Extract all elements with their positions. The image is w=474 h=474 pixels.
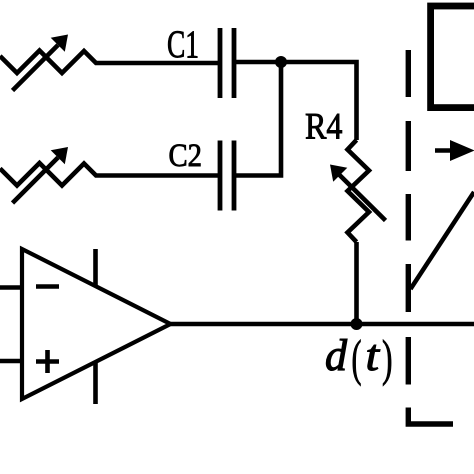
capacitor C2 left plate	[218, 141, 223, 211]
variable resistor VR2 (lower-left) zigzag body	[0, 163, 219, 186]
ramp waveform line	[411, 192, 474, 289]
svg-text:t: t	[366, 331, 381, 380]
capacitor C1 right plate	[232, 28, 237, 98]
op-amp plus symbol	[36, 359, 59, 364]
dashed boundary segment 3	[406, 194, 411, 241]
wire R4 bottom to output node	[354, 242, 359, 324]
svg-text:C1: C1	[167, 23, 199, 66]
op-amp non-inverting input wire	[0, 359, 22, 364]
variable resistor VR1 (top-left) zigzag body	[0, 51, 219, 74]
output wire to right edge	[171, 322, 474, 327]
R4 arrow shaft	[338, 174, 386, 221]
signal arrowhead	[450, 140, 474, 161]
VR2 arrow shaft	[13, 158, 59, 204]
svg-text:d: d	[325, 331, 348, 380]
op-amp inverting input wire	[0, 285, 22, 290]
svg-text:R4: R4	[305, 107, 343, 148]
dashed boundary segment 1	[406, 50, 411, 97]
op-amp bottom power pin	[93, 361, 98, 404]
dashed boundary segment 4	[406, 264, 411, 312]
comparator block box (top right, cut off)	[431, 6, 474, 108]
signal arrow tail	[435, 148, 452, 153]
capacitor C1 left plate	[218, 28, 223, 98]
dashed boundary segment 5	[406, 337, 411, 385]
svg-text:): )	[382, 331, 393, 387]
svg-text:C2: C2	[169, 138, 203, 174]
op-amp top power pin	[93, 249, 98, 285]
dashed boundary segment 2	[406, 121, 411, 171]
resistor R4 zigzag (variable)	[348, 140, 370, 242]
node d(t) junction dot	[351, 318, 363, 330]
capacitor C2 right plate	[232, 141, 237, 211]
R4 arrowhead	[330, 165, 347, 182]
dashed boundary corner segment	[408, 408, 453, 425]
node A junction dot	[275, 56, 287, 68]
svg-text:(: (	[352, 331, 362, 387]
wire C1 to R4 top	[236, 62, 357, 140]
VR2 arrowhead	[51, 147, 68, 164]
wire node A down to C2	[236, 62, 281, 176]
op-amp U1 triangle	[22, 249, 171, 399]
op-amp minus symbol	[36, 284, 59, 289]
VR1 arrowhead	[51, 35, 68, 52]
VR1 arrow shaft	[13, 45, 59, 91]
